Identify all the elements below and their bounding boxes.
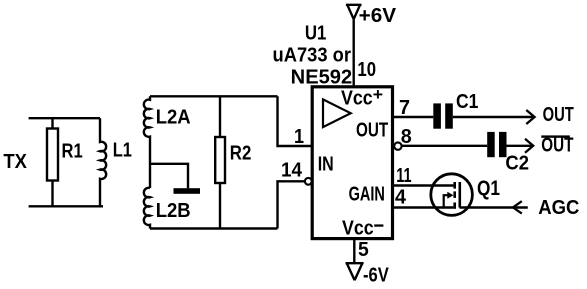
- svg-text:TX: TX: [3, 151, 27, 173]
- wire pin 4: [394, 206, 453, 208]
- wire pin 8: [402, 145, 487, 147]
- svg-text:Vcc: Vcc: [341, 88, 373, 110]
- svg-text:11: 11: [396, 165, 411, 187]
- wire pin 8 out to arrow: [507, 145, 532, 147]
- capacitor C1: [433, 103, 453, 128]
- resistor R1: [47, 129, 58, 181]
- power -6V symbol: [346, 263, 364, 280]
- wire to pin 14: [278, 181, 305, 228]
- wire TX bottom rail: [29, 205, 103, 207]
- node pin 14 circle: [305, 178, 312, 185]
- svg-text:5: 5: [358, 239, 369, 261]
- inductor L2B: [144, 188, 150, 229]
- svg-text:L1: L1: [113, 139, 132, 161]
- arrow OUT-bar: [525, 139, 533, 153]
- wire R1 bottom lead: [51, 181, 53, 207]
- svg-text:+6V: +6V: [359, 5, 397, 27]
- power +6V symbol: [346, 5, 362, 19]
- op-amp triangle: [323, 99, 351, 127]
- svg-text:R2: R2: [230, 142, 252, 164]
- wire pin 7: [394, 116, 433, 118]
- inductor L2A: [144, 96, 150, 188]
- arrow AGC: [513, 201, 522, 213]
- svg-text:-6V: -6V: [363, 264, 389, 286]
- wire center tap: [151, 164, 188, 188]
- wire TX top rail: [29, 117, 100, 119]
- op-amp U1 box: [312, 87, 392, 239]
- svg-text:4: 4: [395, 187, 407, 209]
- svg-text:8: 8: [401, 126, 412, 148]
- svg-text:10: 10: [357, 59, 376, 81]
- node pin 8 circle: [394, 142, 401, 149]
- wire R2 leads: [219, 96, 221, 228]
- wire pin 10: [353, 19, 355, 85]
- wire pin 11: [394, 184, 453, 186]
- wire R1 top lead: [51, 118, 53, 128]
- svg-text:GAIN: GAIN: [349, 184, 385, 206]
- svg-text:R1: R1: [62, 141, 83, 163]
- ground: [174, 188, 201, 194]
- svg-text:L2B: L2B: [156, 200, 191, 222]
- svg-text:C2: C2: [505, 153, 529, 175]
- capacitor C2: [487, 132, 506, 157]
- resistor R2: [215, 137, 225, 183]
- svg-text:U1: U1: [305, 23, 327, 45]
- svg-text:L2A: L2A: [156, 106, 191, 128]
- svg-text:7: 7: [399, 97, 410, 119]
- svg-text:NE592: NE592: [291, 67, 353, 89]
- inductor L1: [100, 118, 106, 206]
- svg-text:OUT: OUT: [356, 120, 388, 142]
- svg-text:Q1: Q1: [477, 177, 500, 200]
- svg-text:+: +: [373, 85, 383, 104]
- svg-text:uA733 or: uA733 or: [273, 45, 352, 67]
- wire pin 7 out to arrow: [453, 116, 533, 118]
- wire to pin 1: [278, 96, 313, 146]
- svg-text:AGC: AGC: [538, 197, 579, 219]
- wire AGC: [460, 206, 528, 208]
- wire L2 top rail: [150, 95, 278, 97]
- transistor Q1: [431, 174, 473, 216]
- wire L2 bottom rail: [150, 227, 278, 229]
- svg-text:Vcc: Vcc: [342, 217, 374, 239]
- svg-text:C1: C1: [456, 91, 478, 113]
- wire pin 5: [353, 240, 355, 263]
- svg-text:14: 14: [281, 159, 303, 181]
- svg-text:OUT: OUT: [543, 104, 574, 126]
- svg-text:1: 1: [294, 126, 304, 148]
- svg-text:IN: IN: [318, 154, 334, 176]
- arrow OUT: [526, 110, 534, 124]
- svg-text:OUT: OUT: [541, 135, 573, 157]
